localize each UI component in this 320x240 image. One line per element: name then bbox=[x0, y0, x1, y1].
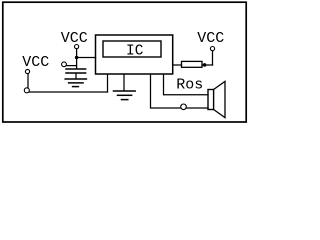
wire terminal to capacitor wire bbox=[66, 65, 76, 67]
speaker cone bbox=[214, 81, 225, 117]
wire junction to IC left edge bbox=[77, 57, 96, 59]
wire middle VCC vertical down to capacitor bbox=[76, 49, 78, 68]
svg-text:VCC: VCC bbox=[61, 30, 88, 47]
terminal circle under right VCC bbox=[210, 47, 214, 51]
border frame bbox=[3, 2, 246, 122]
terminal circle under left VCC bbox=[25, 69, 29, 73]
ground (under IC) bbox=[114, 90, 136, 92]
wire left VCC vertical bbox=[27, 74, 29, 88]
wire capacitor to ground bbox=[75, 74, 77, 79]
wire bottom left horizontal to IC pin bbox=[29, 91, 107, 93]
wire resistor to VCC drop bbox=[202, 64, 213, 66]
wire IC right pin to resistor bbox=[173, 64, 182, 66]
capacitor C1 plates bbox=[66, 68, 86, 70]
wire IC pin to speaker top bbox=[164, 74, 209, 95]
wire right VCC vertical to resistor bbox=[212, 51, 214, 65]
svg-text:VCC: VCC bbox=[22, 54, 49, 71]
IC inner box bbox=[103, 41, 161, 57]
speaker LS1 driver bbox=[208, 90, 214, 110]
terminal circle lower left bbox=[24, 88, 29, 93]
wire IC ground pin bbox=[123, 74, 125, 91]
junction dot at resistor right bbox=[203, 63, 207, 67]
wire IC pin to bottom-left (to VCC rail) bbox=[107, 74, 109, 92]
resistor Ros body bbox=[182, 61, 203, 67]
svg-text:Ros: Ros bbox=[176, 77, 203, 94]
wire IC pin to speaker bottom bbox=[151, 74, 181, 108]
wire circle to speaker bbox=[186, 107, 208, 109]
junction dot bbox=[75, 56, 78, 59]
ground (under capacitor) bbox=[65, 78, 86, 80]
terminal circle left of capacitor bbox=[62, 62, 67, 67]
terminal circle under middle VCC bbox=[75, 45, 79, 49]
terminal circle on speaker bottom wire bbox=[181, 104, 187, 110]
op IC outer box bbox=[96, 35, 173, 74]
svg-text:VCC: VCC bbox=[197, 30, 224, 47]
svg-text:IC: IC bbox=[126, 43, 144, 59]
